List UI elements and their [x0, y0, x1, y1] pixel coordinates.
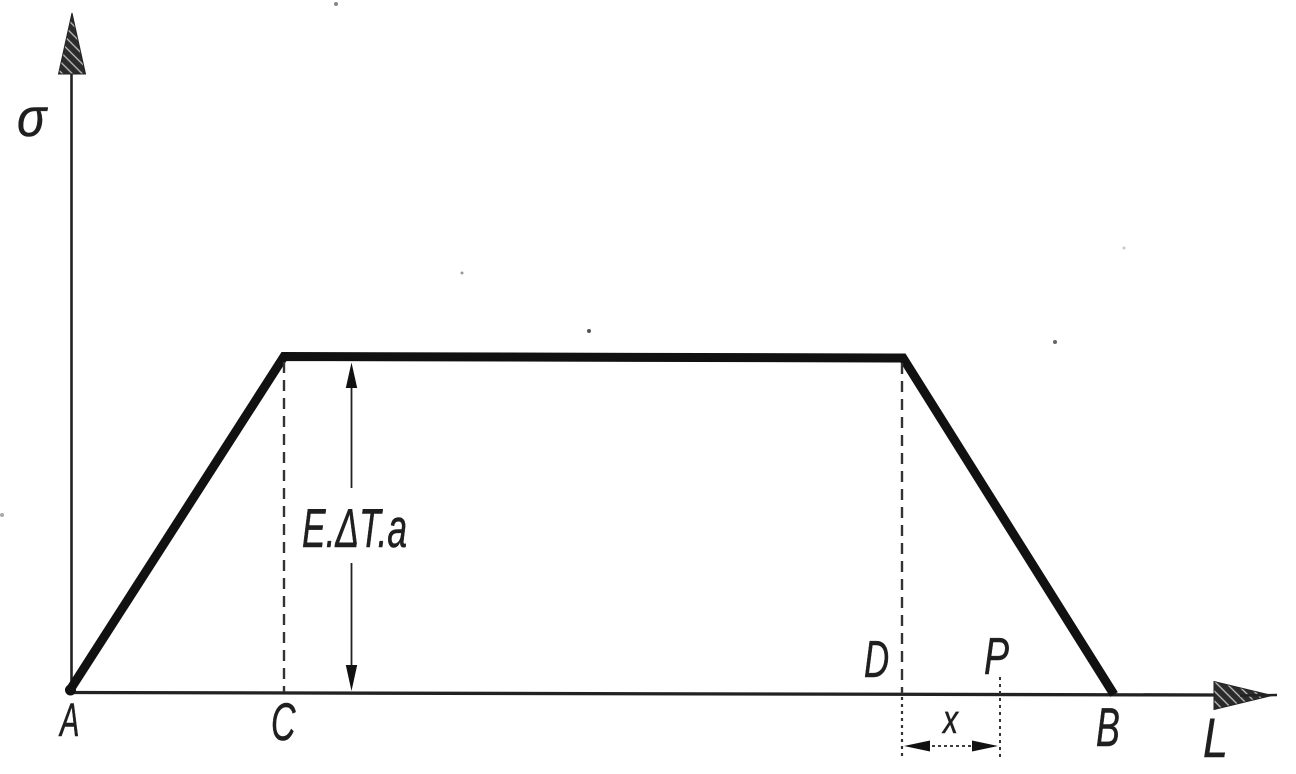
- dotted line at P: [999, 677, 1001, 759]
- stress curve (thick trapezoid A-C-D-B): [69, 357, 1114, 695]
- svg-text:P: P: [984, 627, 1009, 686]
- svg-text:A: A: [59, 695, 80, 747]
- sigma axis (vertical): [70, 70, 73, 693]
- svg-text:B: B: [1096, 696, 1120, 758]
- svg-text:L: L: [1203, 706, 1228, 769]
- dashed line at D: [901, 363, 903, 694]
- svg-text:D: D: [864, 631, 889, 689]
- svg-text:x: x: [941, 698, 959, 742]
- svg-text:E.ΔT.a: E.ΔT.a: [302, 497, 407, 559]
- svg-text:C: C: [271, 694, 296, 752]
- sigma axis arrowhead: [59, 13, 86, 74]
- x dimension arrow (horizontal double arrow between D and P): [904, 741, 998, 752]
- svg-text:σ: σ: [17, 87, 48, 148]
- L axis (horizontal): [69, 693, 1218, 696]
- dashed line at C: [283, 362, 285, 692]
- dimension arrow E.dT.a (vertical double arrow): [346, 363, 357, 692]
- node A ink blob: [65, 685, 76, 696]
- scan speckles: [334, 2, 338, 6]
- L axis arrowhead: [1214, 682, 1272, 710]
